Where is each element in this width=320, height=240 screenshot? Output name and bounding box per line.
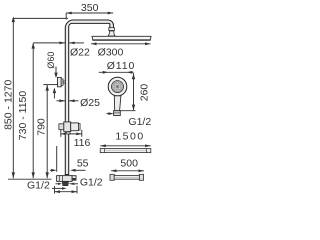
svg-text:Ø110: Ø110 <box>107 60 136 72</box>
svg-text:500: 500 <box>120 157 138 169</box>
svg-text:116: 116 <box>74 137 91 149</box>
svg-text:G1/2: G1/2 <box>80 177 103 189</box>
svg-text:G1/2: G1/2 <box>27 180 50 192</box>
svg-text:260: 260 <box>139 84 151 102</box>
svg-text:Ø60: Ø60 <box>46 52 56 69</box>
svg-text:350: 350 <box>81 2 99 14</box>
svg-text:Ø25: Ø25 <box>80 97 100 109</box>
svg-text:850 - 1270: 850 - 1270 <box>2 80 14 130</box>
svg-text:730 - 1150: 730 - 1150 <box>17 91 29 141</box>
svg-text:1500: 1500 <box>115 130 144 142</box>
svg-text:G1/2: G1/2 <box>128 116 151 128</box>
svg-text:790: 790 <box>35 118 47 136</box>
svg-text:55: 55 <box>77 158 89 170</box>
svg-text:Ø300: Ø300 <box>98 47 124 59</box>
svg-text:Ø22: Ø22 <box>70 47 90 59</box>
